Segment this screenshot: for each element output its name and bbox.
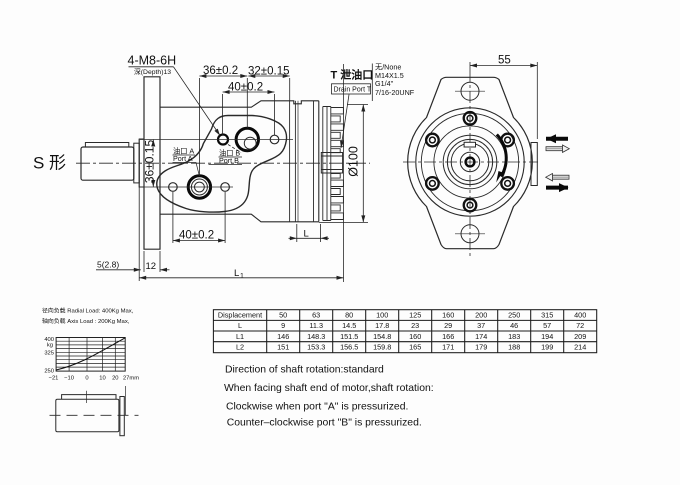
- small flange: [120, 397, 124, 436]
- side view dim texts: [33, 54, 415, 281]
- svg-text:深(Depth)13: 深(Depth)13: [134, 67, 171, 76]
- svg-text:325: 325: [44, 351, 54, 357]
- svg-text:37: 37: [477, 321, 485, 330]
- drain port box: [332, 84, 371, 94]
- svg-text:171: 171: [442, 343, 454, 352]
- small horizontal centerline: [50, 414, 139, 416]
- svg-text:160: 160: [409, 332, 421, 341]
- top mounting hole: [461, 82, 479, 100]
- pilot face line: [138, 139, 140, 187]
- port A outer circle: [188, 176, 210, 198]
- svg-text:315: 315: [541, 311, 553, 320]
- svg-text:46: 46: [510, 321, 518, 330]
- 138 face extension down: [138, 187, 140, 281]
- svg-text:160: 160: [442, 311, 454, 320]
- svg-text:148.3: 148.3: [307, 332, 325, 341]
- svg-text:T 泄油口: T 泄油口: [331, 68, 374, 82]
- svg-text:194: 194: [541, 332, 553, 341]
- svg-text:156.5: 156.5: [340, 343, 358, 352]
- dim line 36±0.15 vertical: [152, 140, 154, 147]
- svg-text:166: 166: [442, 332, 454, 341]
- svg-text:165: 165: [409, 343, 421, 352]
- svg-text:L: L: [234, 268, 239, 279]
- svg-text:Clockwise when port "A" is pre: Clockwise when port "A" is pressurized.: [226, 402, 408, 413]
- bolt hole bottom-left: [169, 183, 178, 192]
- flange plate (side): [144, 77, 160, 249]
- flange outline: [408, 77, 533, 248]
- svg-text:40±0.2: 40±0.2: [228, 82, 263, 94]
- dim line 36±0.2: [199, 75, 247, 77]
- extension line top hole right: [274, 94, 276, 135]
- shaft: [81, 147, 134, 180]
- drain port leader: [341, 95, 349, 149]
- extension line body edge: [289, 78, 291, 101]
- bolt lower-right: [501, 177, 514, 190]
- svg-text:100: 100: [376, 311, 388, 320]
- svg-text:9: 9: [281, 321, 285, 330]
- body section line x295.4: [294, 101, 296, 222]
- extension lines for 12: [143, 251, 145, 272]
- port plate contour: [157, 116, 287, 213]
- port A ring: [191, 179, 207, 195]
- port A inner: [195, 182, 205, 192]
- top hole cross tick: [455, 90, 485, 92]
- svg-text:7/16-20UNF: 7/16-20UNF: [375, 88, 415, 97]
- 55 dim extension center: [469, 62, 471, 70]
- dim line 32±0.15: [248, 75, 289, 77]
- body outer circle: [416, 108, 524, 216]
- gerotor centerline vertical: [343, 64, 345, 282]
- svg-text:55: 55: [498, 55, 511, 67]
- keyway: [464, 142, 475, 147]
- bolt lower-left: [426, 177, 439, 190]
- small shaft body: [56, 399, 119, 432]
- svg-text:17.8: 17.8: [375, 321, 389, 330]
- svg-text:400: 400: [574, 311, 586, 320]
- svg-text:250: 250: [44, 369, 54, 375]
- 12 dim arrows: [160, 269, 170, 271]
- svg-text:80: 80: [345, 311, 353, 320]
- svg-text:151: 151: [277, 343, 289, 352]
- svg-text:50: 50: [279, 311, 287, 320]
- shaft boss circle r23.5: [443, 135, 497, 189]
- gerotor base strip: [323, 107, 331, 221]
- svg-text:27mm: 27mm: [123, 376, 139, 382]
- svg-text:125: 125: [409, 311, 421, 320]
- shaft inner circle r10.8: [451, 143, 489, 181]
- rotation arrowhead: [496, 171, 502, 183]
- 4-M8-6H leader: [174, 67, 221, 136]
- table outer border: [213, 310, 596, 353]
- L dim line: [289, 237, 297, 239]
- svg-text:151.5: 151.5: [340, 332, 358, 341]
- gerotor ribs: [331, 108, 344, 220]
- port B outer circle: [236, 128, 258, 150]
- svg-text:57: 57: [543, 321, 551, 330]
- small key tick: [85, 391, 87, 403]
- svg-text:L: L: [238, 321, 242, 330]
- svg-text:径向负载 Radial Load: 400Kg Max: 径向负载 Radial Load: 400Kg Max,: [42, 307, 134, 315]
- bolt upper-right: [501, 134, 514, 147]
- svg-text:4-M8-6H: 4-M8-6H: [128, 54, 177, 68]
- L1 dim line: [139, 277, 343, 279]
- flange pilot circle: [421, 113, 518, 210]
- front view vertical centerline: [469, 70, 471, 256]
- 4-M8 underline: [129, 66, 174, 68]
- svg-text:214: 214: [574, 343, 586, 352]
- svg-text:250: 250: [508, 311, 520, 320]
- svg-text:G1/4": G1/4": [375, 79, 394, 88]
- svg-text:Counter–clockwise port "B" is: Counter–clockwise port "B" is pressurize…: [227, 418, 422, 429]
- svg-text:Drain Port T: Drain Port T: [334, 87, 372, 94]
- 55 dim extension right: [536, 62, 538, 139]
- svg-text:159.8: 159.8: [373, 343, 391, 352]
- svg-text:10: 10: [99, 376, 105, 382]
- bolt upper-left: [426, 134, 439, 147]
- svg-text:S 形: S 形: [33, 154, 66, 173]
- arrow hatched right: [546, 145, 569, 152]
- motor body outline: [160, 101, 319, 222]
- svg-text:153.3: 153.3: [307, 343, 325, 352]
- arrow hatched left: [546, 174, 569, 181]
- svg-text:Direction of shaft rotation:st: Direction of shaft rotation:standard: [225, 365, 384, 376]
- extension line port A up: [198, 78, 200, 176]
- front view horizontal centerline: [403, 161, 538, 163]
- svg-text:Displacement: Displacement: [218, 311, 262, 320]
- body section line x313.5: [313, 101, 315, 222]
- table row lines: [213, 320, 596, 341]
- svg-text:11.3: 11.3: [309, 321, 323, 330]
- inner circle r36: [434, 126, 506, 198]
- lower hole row centerline: [140, 186, 233, 188]
- svg-text:Ø100: Ø100: [346, 146, 360, 177]
- shaft key: [85, 143, 128, 148]
- svg-text:36±0.15: 36±0.15: [143, 140, 157, 184]
- bolt hole top-right: [270, 135, 279, 144]
- leader dashes to port B label: [228, 145, 241, 153]
- svg-text:199: 199: [541, 343, 553, 352]
- svg-text:40±0.2: 40±0.2: [179, 230, 214, 242]
- bolt top: [464, 112, 477, 125]
- svg-text:20: 20: [112, 376, 118, 382]
- table column lines: [267, 310, 564, 353]
- svg-text:63: 63: [312, 311, 320, 320]
- graph frame: [56, 338, 125, 372]
- svg-text:146: 146: [277, 332, 289, 341]
- graph horizontal grid: [56, 341, 125, 367]
- bottom hole cross tick: [455, 233, 485, 235]
- pilot boss: [139, 139, 144, 187]
- svg-text:0: 0: [85, 376, 88, 382]
- side view centerline: [76, 162, 370, 164]
- 55 dim line: [470, 65, 537, 67]
- Ø100 extension ticks: [319, 105, 368, 223]
- center hole: [466, 158, 475, 167]
- small shaft key: [62, 395, 116, 400]
- bolt bottom: [464, 199, 477, 212]
- svg-text:209: 209: [574, 332, 586, 341]
- svg-text:200: 200: [475, 311, 487, 320]
- 5(2.8) leader: [96, 269, 141, 271]
- svg-text:12: 12: [146, 261, 157, 272]
- svg-text:14.5: 14.5: [342, 321, 356, 330]
- body section line x298: [297, 101, 299, 222]
- svg-text:−10: −10: [64, 376, 74, 382]
- arrow black left: [546, 137, 568, 141]
- svg-text:1: 1: [240, 273, 244, 280]
- svg-text:72: 72: [576, 321, 584, 330]
- svg-text:154.8: 154.8: [373, 332, 391, 341]
- rotation arc arrow: [497, 135, 506, 177]
- svg-text:kg: kg: [47, 343, 53, 349]
- upper hole row centerline: [140, 139, 293, 141]
- svg-text:29: 29: [444, 321, 452, 330]
- arrow black right: [546, 186, 568, 190]
- dim line 40±0.2 top: [223, 91, 275, 93]
- bottom mounting hole: [461, 225, 479, 243]
- svg-text:188: 188: [508, 343, 520, 352]
- svg-text:36±0.2: 36±0.2: [203, 65, 238, 77]
- svg-text:5(2.8): 5(2.8): [97, 259, 119, 269]
- Ø100 dim line: [362, 105, 364, 223]
- svg-text:轴向负载 Axis Load : 200Kg Max: 轴向负载 Axis Load : 200Kg Max,: [42, 317, 130, 325]
- svg-text:183: 183: [508, 332, 520, 341]
- L dim extensions: [296, 224, 298, 242]
- extension line top hole left: [222, 94, 224, 135]
- svg-text:L: L: [304, 228, 309, 239]
- dim line 40±0.2 bottom: [173, 240, 225, 242]
- bolt hole bottom-mid: [221, 183, 230, 192]
- bolt hole top-left: [218, 135, 228, 145]
- shaft hub circle r9.7: [460, 152, 479, 171]
- extension lines bottom holes: [172, 192, 174, 243]
- shaft collar: [134, 143, 139, 183]
- body section line x289.6: [289, 101, 291, 222]
- svg-text:L1: L1: [236, 332, 244, 341]
- spec divider line: [371, 64, 373, 102]
- svg-text:23: 23: [411, 321, 419, 330]
- graph vertical grid: [69, 338, 115, 372]
- svg-text:174: 174: [475, 332, 487, 341]
- graph curve: [56, 338, 125, 370]
- shaft circle r19.9: [447, 139, 492, 184]
- svg-text:−21: −21: [49, 376, 59, 382]
- extension line port B up: [246, 78, 248, 128]
- svg-text:When facing shaft end of motor: When facing shaft end of motor,shaft rot…: [224, 383, 434, 394]
- drain port boss: [321, 153, 342, 174]
- svg-text:L2: L2: [236, 343, 244, 352]
- svg-text:179: 179: [475, 343, 487, 352]
- small vertical centerline: [125, 386, 127, 415]
- port B inner circle: [244, 137, 256, 149]
- svg-text:32±0.15: 32±0.15: [248, 66, 290, 78]
- right port boss tab: [531, 143, 537, 186]
